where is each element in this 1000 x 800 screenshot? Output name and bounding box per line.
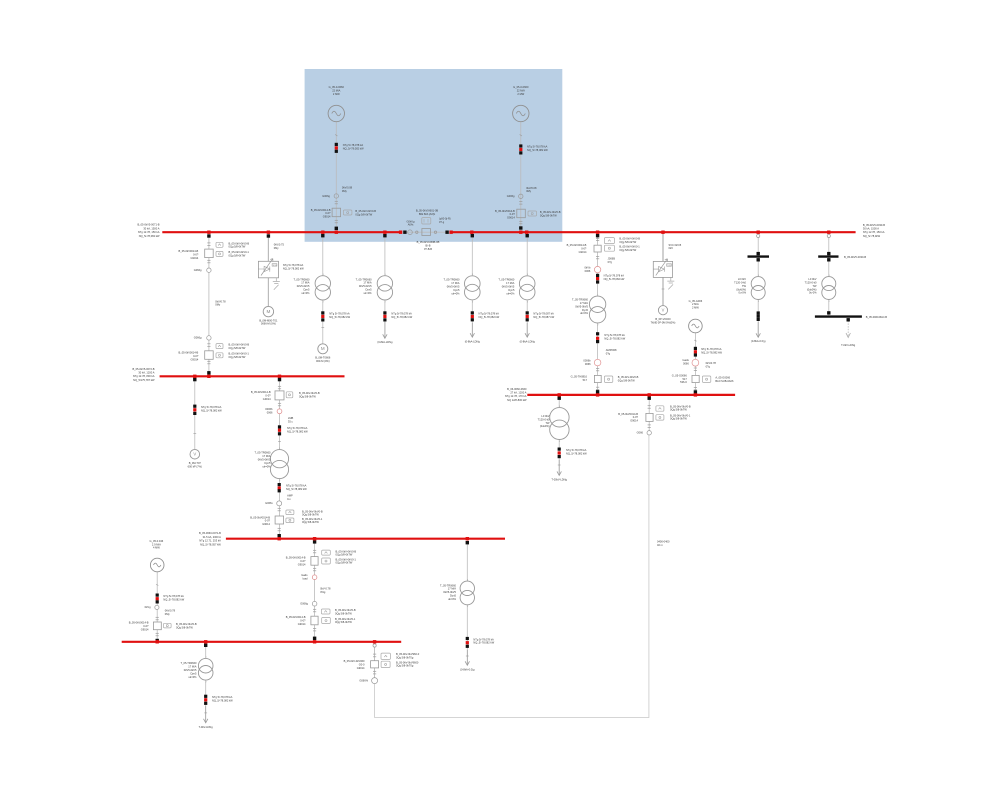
svg-text:NQ_5/-78,082 kW: NQ_5/-78,082 kW: [604, 277, 625, 281]
svg-text:B_0P-V0C00: B_0P-V0C00: [655, 317, 671, 321]
svg-text:0kV/0.08: 0kV/0.08: [526, 186, 537, 190]
svg-text:B_05-0kV-0kV0-B: B_05-0kV-0kV0-B: [229, 241, 250, 245]
svg-text:B_05-0kV-0kV0-1: B_05-0kV-0kV0-1: [229, 352, 250, 356]
svg-text:0kV/0.78: 0kV/0.78: [706, 361, 717, 365]
svg-text:0-0?: 0-0?: [633, 415, 639, 419]
svg-text:1: 1: [467, 579, 468, 581]
svg-text:B_05-0660-0071-B: B_05-0660-0071-B: [199, 531, 221, 535]
svg-text:T-0kV-LDNg: T-0kV-LDNg: [841, 343, 856, 347]
svg-text:Dyn5: Dyn5: [582, 308, 589, 312]
svg-text:TW: TW: [812, 284, 817, 288]
svg-text:0kV5-0kV5: 0kV5-0kV5: [575, 304, 588, 308]
svg-text:B_05-0kV-0kV0-B: B_05-0kV-0kV0-B: [540, 210, 561, 214]
svg-text:NQ_5/-78,082 kW: NQ_5/-78,082 kW: [139, 234, 160, 238]
svg-text:T120-0-k0: T120-0-k0: [805, 281, 817, 285]
svg-text:G_05-0-0660: G_05-0-0660: [329, 85, 345, 89]
svg-text:2 MW: 2 MW: [692, 306, 699, 310]
svg-text:G9014: G9014: [191, 256, 199, 260]
svg-text:17 M/A: 17 M/A: [506, 281, 514, 285]
svg-text:NTg 5/-78,078 kA: NTg 5/-78,078 kA: [163, 594, 184, 598]
svg-text:T_05-TR0660: T_05-TR0660: [293, 277, 310, 281]
svg-text:Dyn5: Dyn5: [303, 288, 310, 292]
svg-text:0Qg 5/8-0kTW: 0Qg 5/8-0kTW: [302, 513, 319, 517]
svg-text:2: 2: [758, 301, 759, 303]
svg-text:2 MW: 2 MW: [517, 92, 524, 96]
svg-text:M: M: [266, 309, 270, 314]
svg-text:27 kA, 1200 A: 27 kA, 1200 A: [510, 391, 526, 395]
svg-text:T_05-TR0660: T_05-TR0660: [356, 277, 373, 281]
svg-text:0?-g: 0?-g: [439, 220, 445, 224]
svg-text:0-0?: 0-0?: [325, 211, 331, 215]
svg-text:B_0M-T0666: B_0M-T0666: [315, 356, 331, 360]
svg-text:NQ_5/-78,082 kW: NQ_5/-78,082 kW: [329, 315, 350, 319]
svg-text:NQ_5/-78,082 kW: NQ_5/-78,082 kW: [286, 487, 307, 491]
svg-text:Dyn5: Dyn5: [190, 671, 197, 675]
svg-text:G066g: G066g: [300, 602, 308, 606]
svg-text:0Qg 5/8-0kTW: 0Qg 5/8-0kTW: [618, 378, 635, 382]
svg-text:B_05-0kV0014-B: B_05-0kV0014-B: [286, 556, 306, 560]
svg-text:B_05-0kV0014-B: B_05-0kV0014-B: [286, 615, 306, 619]
svg-text:1: 1: [829, 275, 830, 277]
svg-text:0kV5-0kV5: 0kV5-0kV5: [443, 590, 456, 594]
svg-text:uk=0%: uk=0%: [451, 291, 460, 295]
svg-text:B_05-0kV5-0030-B: B_05-0kV5-0030-B: [844, 255, 866, 259]
svg-text:17 M/A: 17 M/A: [448, 587, 456, 591]
svg-text:(0uk0%): (0uk0%): [736, 287, 746, 291]
svg-text:B0k B/A (A/0)t: B0k B/A (A/0)t: [419, 212, 436, 216]
svg-text:L0 0kV: L0 0kV: [808, 277, 816, 281]
svg-text:0Qg 5/8-0kTW: 0Qg 5/8-0kTW: [229, 254, 246, 258]
svg-text:1: 1: [472, 274, 473, 276]
svg-text:(0uk0%): (0uk0%): [807, 287, 817, 291]
svg-text:TW: TW: [742, 284, 747, 288]
svg-text:B_05-0kV-0kV0-B: B_05-0kV-0kV0-B: [670, 404, 691, 408]
svg-text:NTg 5/-78,078 kA: NTg 5/-78,078 kA: [283, 263, 304, 267]
svg-text:LMB: LMB: [288, 416, 294, 420]
svg-text:G9014: G9014: [357, 666, 365, 670]
svg-text:1: 1: [527, 274, 528, 276]
svg-text:0kV-0.78: 0kV-0.78: [320, 587, 331, 591]
svg-text:2: 2: [559, 441, 560, 443]
svg-text:0?-B-B: 0?-B-B: [424, 247, 432, 251]
svg-text:17 M/A: 17 M/A: [451, 281, 459, 285]
svg-text:1: 1: [279, 448, 280, 450]
svg-text:0kV5-0kV5: 0kV5-0kV5: [297, 284, 310, 288]
svg-text:G_05-G006: G_05-G006: [689, 299, 703, 303]
svg-text:T_05-TR0660: T_05-TR0660: [254, 451, 271, 455]
svg-text:0Qg 5/8-0kTW: 0Qg 5/8-0kTW: [336, 553, 353, 557]
svg-text:V: V: [662, 308, 665, 313]
svg-text:T-0kV-LDNg: T-0kV-LDNg: [199, 725, 214, 729]
svg-text:B_05-0kV-0kV9600: B_05-0kV-0kV9600: [396, 660, 419, 664]
svg-text:1: 1: [597, 294, 598, 296]
svg-text:1: 1: [559, 406, 560, 408]
svg-text:uk=0%: uk=0%: [262, 464, 271, 468]
svg-text:(0-8kA-LDNg: (0-8kA-LDNg: [520, 340, 536, 344]
svg-text:NTg 5/-78,078 kA: NTg 5/-78,078 kA: [604, 274, 625, 278]
svg-text:0-0?: 0-0?: [265, 519, 271, 523]
svg-text:0kV5-0kV5: 0kV5-0kV5: [258, 458, 271, 462]
svg-text:G9014: G9014: [262, 522, 270, 526]
svg-text:0kV/0.75: 0kV/0.75: [274, 243, 285, 247]
svg-text:TkNE 0P-0M 0%(0%): TkNE 0P-0M 0%(0%): [651, 321, 676, 325]
svg-text:NTg 5/-78,087 kA: NTg 5/-78,087 kA: [533, 312, 554, 316]
svg-text:B_0M-M00-T01: B_0M-M00-T01: [259, 318, 278, 322]
svg-text:17 M/A: 17 M/A: [188, 665, 196, 669]
svg-text:2: 2: [279, 480, 280, 482]
svg-text:0My: 0My: [342, 189, 348, 193]
svg-text:G_05-0.046: G_05-0.046: [150, 539, 164, 543]
svg-text:0My: 0My: [526, 189, 532, 193]
svg-text:G006g: G006g: [507, 194, 515, 198]
svg-text:G9014: G9014: [298, 562, 306, 566]
svg-text:B_06-0660-0660: B_06-0660-0660: [507, 387, 527, 391]
svg-text:NQ_5/-78,082 kW: NQ_5/-78,082 kW: [212, 699, 233, 703]
svg-text:T120-0-k0: T120-0-k0: [538, 417, 550, 421]
svg-text:AMP: AMP: [287, 494, 293, 498]
svg-text:NQ_5/-78,087 kW: NQ_5/-78,087 kW: [533, 315, 554, 319]
svg-text:17 M/A: 17 M/A: [580, 301, 588, 305]
svg-text:0Qg 5/8-0kTW: 0Qg 5/8-0kTW: [540, 213, 557, 217]
svg-text:NQ_5/-78,082 kW: NQ_5/-78,082 kW: [604, 337, 625, 341]
svg-text:Dyn5: Dyn5: [508, 288, 515, 292]
svg-text:T_05-TR0660: T_05-TR0660: [572, 298, 589, 302]
svg-text:B_05-0kV-0kV0-1: B_05-0kV-0kV0-1: [229, 250, 250, 254]
svg-text:load: load: [303, 577, 308, 581]
svg-text:NTg 5/-78,078 kA: NTg 5/-78,078 kA: [479, 312, 500, 316]
svg-text:B_05-0kV-0kV0-B: B_05-0kV-0kV0-B: [618, 375, 639, 379]
svg-text:0?g: 0?g: [706, 364, 711, 368]
svg-text:2: 2: [323, 301, 324, 303]
svg-text:L0 0kV: L0 0kV: [541, 414, 549, 418]
svg-text:NTg 5/-78,078 kA: NTg 5/-78,078 kA: [343, 143, 364, 147]
svg-text:0-0?: 0-0?: [300, 559, 306, 563]
svg-text:0kV/0.78: 0kV/0.78: [215, 299, 226, 303]
svg-text:(p00-0j-R): (p00-0j-R): [439, 217, 451, 221]
svg-text:0Qg 5/8-0kTW: 0Qg 5/8-0kTW: [229, 245, 246, 249]
svg-text:2: 2: [597, 324, 598, 326]
svg-text:G066: G066: [637, 431, 644, 435]
svg-text:NTg 5/-78,078 kA: NTg 5/-78,078 kA: [329, 312, 350, 316]
svg-text:(0-8kA-LDNg: (0-8kA-LDNg: [465, 340, 481, 344]
svg-text:2: 2: [385, 301, 386, 303]
svg-text:B_05-0kV-0kV0-1: B_05-0kV-0kV0-1: [619, 245, 640, 249]
svg-text:uk=0%: uk=0%: [506, 291, 515, 295]
svg-text:0Qg 5/8-0kTW: 0Qg 5/8-0kTW: [670, 408, 687, 412]
svg-text:0My: 0My: [274, 246, 280, 250]
svg-text:30 kA, 1500 A: 30 kA, 1500 A: [143, 226, 159, 230]
svg-text:0Qg 5/8-0kTW: 0Qg 5/8-0kTW: [670, 417, 687, 421]
svg-text:NQ_5/175,787 kW: NQ_5/175,787 kW: [133, 378, 155, 382]
svg-text:uk=0%: uk=0%: [580, 311, 589, 315]
svg-text:NQ_5/-78,082 kW: NQ_5/-78,082 kW: [479, 315, 500, 319]
svg-text:NQ_5/-78,082 kW: NQ_5/-78,082 kW: [391, 315, 412, 319]
svg-text:0-0?: 0-0?: [265, 394, 271, 398]
svg-text:0-0?: 0-0?: [300, 619, 306, 623]
svg-text:0kV5-0kV5: 0kV5-0kV5: [359, 284, 372, 288]
svg-text:0066: 0066: [585, 269, 591, 273]
svg-text:B_05-0kV-0kV0-B: B_05-0kV-0kV0-B: [336, 549, 357, 553]
svg-text:G006g: G006g: [322, 194, 330, 198]
svg-text:T-00kV-LDNg: T-00kV-LDNg: [551, 478, 567, 482]
svg-text:B_05-0kV0014-B: B_05-0kV0014-B: [495, 209, 515, 213]
svg-text:17 M/A: 17 M/A: [262, 454, 270, 458]
svg-text:0?g: 0?g: [608, 260, 613, 264]
svg-text:31.5 kA, 2000 A: 31.5 kA, 2000 A: [203, 535, 222, 539]
svg-text:B_05-0kV-0kV960-0: B_05-0kV-0kV960-0: [396, 652, 420, 656]
svg-text:1: 1: [205, 657, 206, 659]
svg-text:NTg 12.78, 150 kA: NTg 12.78, 150 kA: [138, 230, 160, 234]
svg-text:0066: 0066: [585, 362, 591, 366]
svg-text:NTg 5/-78,078 kA: NTg 5/-78,078 kA: [604, 333, 625, 337]
svg-text:NTg 5/-78,078 kA: NTg 5/-78,078 kA: [473, 637, 494, 641]
svg-text:517: 517: [682, 377, 687, 381]
svg-text:1: 1: [323, 274, 324, 276]
svg-text:SVC 0kV/5: SVC 0kV/5: [669, 243, 682, 247]
svg-text:G9014: G9014: [141, 628, 149, 632]
svg-text:000-M (0%): 000-M (0%): [316, 359, 330, 363]
svg-text:TCR: TCR: [667, 265, 672, 267]
svg-text:22 M/A: 22 M/A: [517, 89, 525, 93]
svg-text:B_05-0kV-0kV960: B_05-0kV-0kV960: [344, 659, 365, 663]
svg-text:B_05-0kV0014-B: B_05-0kV0014-B: [179, 249, 199, 253]
svg-text:17 M/A: 17 M/A: [301, 281, 309, 285]
svg-text:G_05-TH0816: G_05-TH0816: [571, 375, 588, 379]
svg-text:NTg 5/-78,078 kA: NTg 5/-78,078 kA: [212, 695, 233, 699]
svg-text:G9014: G9014: [507, 216, 515, 220]
svg-text:B_05-0kV0014-B: B_05-0kV0014-B: [250, 515, 270, 519]
svg-text:T120-0-k0: T120-0-k0: [734, 281, 746, 285]
svg-text:30 kA, 1200 A: 30 kA, 1200 A: [138, 371, 154, 375]
svg-text:(0-8kA-0.0)g: (0-8kA-0.0)g: [751, 339, 766, 343]
svg-text:0Qg 5/8-0kTW: 0Qg 5/8-0kTW: [619, 248, 636, 252]
svg-text:G066g: G066g: [194, 336, 202, 340]
svg-text:B_05-0kV0-B01-0B: B_05-0kV0-B01-0B: [416, 209, 439, 213]
svg-text:22 M/A: 22 M/A: [332, 89, 340, 93]
svg-text:0Qg 5/8-0kTW: 0Qg 5/8-0kTW: [335, 620, 352, 624]
svg-text:loads: loads: [683, 358, 690, 362]
svg-text:517: 517: [583, 378, 588, 382]
svg-text:B_0M-T07: B_0M-T07: [189, 461, 202, 465]
svg-text:B_05-0kV0-B0B-0B: B_05-0kV0-B0B-0B: [417, 240, 440, 244]
svg-text:uk=0%: uk=0%: [448, 597, 457, 601]
svg-text:Dyn5: Dyn5: [453, 288, 460, 292]
svg-text:NQ_5/-78,082 kW: NQ_5/-78,082 kW: [701, 350, 722, 354]
svg-text:NQ 12/8-830 kW: NQ 12/8-830 kW: [507, 398, 527, 402]
svg-text:0My: 0My: [215, 303, 221, 307]
svg-text:G9014: G9014: [191, 357, 199, 361]
svg-text:0Qg 5/8-0kTW: 0Qg 5/8-0kTW: [229, 346, 246, 350]
svg-text:Dyn5: Dyn5: [264, 461, 271, 465]
svg-text:0kVb: 0kVb: [584, 266, 590, 270]
svg-text:B/-B: B/-B: [425, 244, 430, 248]
svg-text:BLD SUB-0A06: BLD SUB-0A06: [715, 379, 734, 383]
svg-text:G_05-0-0660: G_05-0-0660: [513, 85, 529, 89]
svg-text:0kV5-0kV5: 0kV5-0kV5: [502, 285, 515, 289]
svg-text:0kV5-0kV5: 0kV5-0kV5: [184, 668, 197, 672]
svg-text:G9014: G9014: [263, 397, 271, 401]
svg-text:NTg 12.78, 830 kA: NTg 12.78, 830 kA: [133, 374, 155, 378]
svg-text:0Qg 5/8-0kTW: 0Qg 5/8-0kTW: [336, 561, 353, 565]
svg-text:NTg 12.78, 170 kA: NTg 12.78, 170 kA: [505, 394, 527, 398]
svg-text:40 m: 40 m: [657, 543, 663, 547]
svg-text:0Qg 5/8-0kT0g: 0Qg 5/8-0kT0g: [396, 656, 414, 660]
svg-text:NQ_5/-78,082 kW: NQ_5/-78,082 kW: [287, 429, 308, 433]
svg-text:30 kA, 1500 A: 30 kA, 1500 A: [863, 227, 879, 231]
svg-text:0Qg 5/8-0kTW: 0Qg 5/8-0kTW: [299, 395, 316, 399]
svg-text:NQ_5/-78,082 kW: NQ_5/-78,082 kW: [343, 147, 364, 151]
svg-text:NTg 5/-78,078 kA: NTg 5/-78,078 kA: [287, 426, 308, 430]
svg-text:35 c: 35 c: [288, 420, 294, 424]
svg-text:B_05-0kV-0kV0-1: B_05-0kV-0kV0-1: [670, 413, 691, 417]
svg-text:0Qg 5/8-0kTW: 0Qg 5/8-0kTW: [229, 355, 246, 359]
svg-text:0066: 0066: [267, 410, 273, 414]
svg-text:G066%: G066%: [359, 678, 368, 682]
svg-text:B_05-0kV-0kV0-B: B_05-0kV-0kV0-B: [335, 608, 356, 612]
svg-text:NTg 5/-78,078 kA: NTg 5/-78,078 kA: [527, 145, 548, 149]
svg-text:0-0?: 0-0?: [143, 624, 149, 628]
svg-text:NTg 12.71, 253 kA: NTg 12.71, 253 kA: [199, 539, 221, 543]
svg-text:536-6: 536-6: [680, 380, 687, 384]
svg-text:2: 2: [527, 301, 528, 303]
svg-text:0My: 0My: [165, 612, 171, 616]
svg-text:TCR: TCR: [272, 265, 277, 267]
svg-text:NQ_5/-78,057 kW: NQ_5/-78,057 kW: [200, 542, 221, 546]
svg-text:T_05-TR0660: T_05-TR0660: [443, 278, 460, 282]
svg-text:NTg 12.78, 150 kA: NTg 12.78, 150 kA: [863, 230, 885, 234]
svg-text:2.9 M/A: 2.9 M/A: [152, 542, 161, 546]
svg-text:T_05-TR0660: T_05-TR0660: [498, 278, 515, 282]
svg-text:M: M: [321, 346, 325, 351]
svg-text:NTg 5/-78,078 kA: NTg 5/-78,078 kA: [201, 405, 222, 409]
svg-text:0006b: 0006b: [265, 407, 273, 411]
svg-text:600 kP (7%): 600 kP (7%): [188, 465, 202, 469]
svg-text:T_05-TR0660: T_05-TR0660: [440, 583, 457, 587]
svg-text:Dyn5: Dyn5: [366, 288, 373, 292]
svg-text:0Qg 5/8-0kTW: 0Qg 5/8-0kTW: [335, 611, 352, 615]
svg-text:0%g: 0%g: [320, 590, 326, 594]
svg-text:B_05-0kV-0kV0-B: B_05-0kV-0kV0-B: [176, 622, 197, 626]
svg-text:0?g: 0?g: [606, 352, 611, 356]
svg-text:NQ_5/-78,0kW: NQ_5/-78,0kW: [863, 234, 881, 238]
svg-text:uk=0%: uk=0%: [364, 291, 373, 295]
svg-text:B_05-0kV0014-B: B_05-0kV0014-B: [618, 412, 638, 416]
svg-text:1: 1: [758, 275, 759, 277]
svg-text:0006b: 0006b: [583, 359, 591, 363]
svg-text:B_05-0kV-0kV0-B: B_05-0kV-0kV0-B: [299, 391, 320, 395]
svg-text:2 M/A: 2 M/A: [692, 302, 699, 306]
svg-text:B_05-0kV5-0072-B: B_05-0kV5-0072-B: [132, 367, 154, 371]
svg-text:NQ_5/-78,082 kW: NQ_5/-78,082 kW: [473, 641, 494, 645]
svg-text:B_05-0kV-0kV0-B: B_05-0kV-0kV0-B: [229, 343, 250, 347]
svg-text:TW: TW: [545, 421, 550, 425]
svg-text:G_05-G0066: G_05-G0066: [672, 373, 688, 377]
svg-text:G0-0: G0-0: [359, 663, 365, 667]
svg-text:2: 2: [829, 301, 830, 303]
svg-text:B_05-0kV-0kV0-1: B_05-0kV-0kV0-1: [335, 617, 356, 621]
svg-text:A0At: A0At: [408, 223, 414, 227]
svg-text:loads: loads: [301, 573, 308, 577]
svg-text:NQ_5/-78,082 kW: NQ_5/-78,082 kW: [527, 148, 548, 152]
svg-text:1: 1: [385, 274, 386, 276]
svg-text:AMP/008: AMP/008: [606, 348, 617, 352]
svg-text:0Qg 5/8-0kTW: 0Qg 5/8-0kTW: [176, 625, 193, 629]
svg-text:B_05-0kV-0kV0-B: B_05-0kV-0kV0-B: [619, 237, 640, 241]
svg-text:0066-M (0%): 0066-M (0%): [261, 322, 276, 326]
svg-text:B_05-0kV0014-B: B_05-0kV0014-B: [251, 390, 271, 394]
svg-text:0kV/0.08: 0kV/0.08: [342, 186, 353, 190]
svg-text:0400-0400: 0400-0400: [657, 540, 670, 544]
svg-text:uk=0%: uk=0%: [188, 675, 197, 679]
svg-text:2 MW: 2 MW: [333, 92, 340, 96]
svg-text:0-0?: 0-0?: [510, 212, 516, 216]
svg-text:0Qg 5/8-0kT0g: 0Qg 5/8-0kT0g: [396, 664, 414, 668]
svg-text:(0uk0%): (0uk0%): [540, 424, 550, 428]
svg-text:(0-8kA-0.0)g: (0-8kA-0.0)g: [460, 668, 475, 672]
svg-text:G9014: G9014: [579, 250, 587, 254]
svg-text:0Qg 5/8-0kTW: 0Qg 5/8-0kTW: [355, 212, 372, 216]
svg-text:B_05-0kV-0kV0-1: B_05-0kV-0kV0-1: [336, 557, 357, 561]
svg-text:V: V: [193, 452, 196, 457]
svg-text:uk=0%: uk=0%: [301, 291, 310, 295]
svg-text:(0-8kA-LDNg: (0-8kA-LDNg: [377, 340, 393, 344]
svg-text:NTg 5/-78,078 kA: NTg 5/-78,078 kA: [701, 347, 722, 351]
svg-text:G066g: G066g: [194, 268, 202, 272]
svg-text:J006B: J006B: [608, 256, 616, 260]
svg-text:NQ_5/-78,082 kW: NQ_5/-78,082 kW: [566, 451, 587, 455]
svg-text:B_05-0kV0014-B: B_05-0kV0014-B: [567, 243, 587, 247]
svg-text:2: 2: [467, 606, 468, 608]
svg-text:NQ_5/-78,082 kW: NQ_5/-78,082 kW: [163, 597, 184, 601]
svg-text:0-0?: 0-0?: [193, 253, 199, 257]
svg-text:0kV/0.78: 0kV/0.78: [165, 609, 176, 613]
svg-text:B_05-0kV0014-B: B_05-0kV0014-B: [311, 208, 331, 212]
svg-text:NQ_5/-78,082 kW: NQ_5/-78,082 kW: [283, 267, 304, 271]
svg-text:B_05-0960-BLD-B: B_05-0960-BLD-B: [866, 315, 887, 319]
svg-text:B_05-0kV0014-B: B_05-0kV0014-B: [129, 621, 149, 625]
svg-text:2: 2: [472, 301, 473, 303]
svg-text:B_05-0kV5-0030-B: B_05-0kV5-0030-B: [863, 223, 885, 227]
svg-text:G0kVg: G0kVg: [407, 219, 415, 223]
svg-text:Dyn5: Dyn5: [450, 594, 457, 598]
svg-text:0kV: 0kV: [669, 246, 674, 250]
svg-text:B_05-0kV-0kV0-B: B_05-0kV-0kV0-B: [355, 209, 376, 213]
svg-text:B_05-0kV-0kV0-B: B_05-0kV-0kV0-B: [302, 509, 323, 513]
svg-text:G9014: G9014: [323, 215, 331, 219]
svg-text:T_05-TR0660: T_05-TR0660: [180, 661, 197, 665]
svg-text:2: 2: [205, 682, 206, 684]
svg-text:0kVg: 0kVg: [145, 605, 151, 609]
svg-text:0u-0%: 0u-0%: [809, 291, 817, 295]
svg-text:4 MW: 4 MW: [153, 546, 160, 550]
svg-text:G066x: G066x: [265, 501, 273, 505]
svg-text:NTg 5/-78,078 kA: NTg 5/-78,078 kA: [286, 483, 307, 487]
svg-text:L0 0kV: L0 0kV: [738, 277, 746, 281]
svg-text:0Qg 5/8-0kTW: 0Qg 5/8-0kTW: [302, 520, 319, 524]
svg-text:0u-0%: 0u-0%: [739, 291, 747, 295]
svg-text:B_05-0kV5-0071-B: B_05-0kV5-0071-B: [137, 223, 159, 227]
svg-text:NQ_5/-78,082 kW: NQ_5/-78,082 kW: [201, 408, 222, 412]
svg-text:0kV5-0kV5: 0kV5-0kV5: [447, 285, 460, 289]
svg-text:G9014: G9014: [298, 622, 306, 626]
svg-text:G9014: G9014: [630, 419, 638, 423]
svg-text:0-0?: 0-0?: [581, 247, 587, 251]
svg-text:NTg 5/-78,078 kA: NTg 5/-78,078 kA: [566, 448, 587, 452]
svg-text:B_05-0kV0014-B: B_05-0kV0014-B: [179, 351, 199, 355]
svg-text:0066: 0066: [683, 362, 689, 366]
svg-text:NTg 5/-78,078 kA: NTg 5/-78,078 kA: [391, 312, 412, 316]
svg-text:A_05-G0066: A_05-G0066: [715, 375, 730, 379]
